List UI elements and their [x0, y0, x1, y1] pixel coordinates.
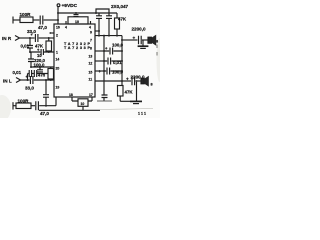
svg-text:8: 8 — [151, 83, 153, 87]
speaker L — [141, 78, 144, 84]
wire coupling row L — [28, 73, 49, 75]
svg-text:TA7233P: TA7233P — [64, 46, 90, 50]
resistor 47K right bottom — [118, 86, 124, 97]
wire mid-left vertical — [30, 52, 32, 67]
node pin9 b — [103, 35, 105, 37]
node pin9 a — [98, 35, 100, 37]
svg-text:7: 7 — [90, 39, 92, 43]
wire cap 100b leads — [104, 70, 122, 72]
resistor 100R — [20, 17, 33, 23]
capacitor 33,0 L — [30, 76, 33, 84]
capacitor 100,0 lower right mid — [107, 68, 110, 75]
speaker R — [148, 37, 151, 43]
wire mid left y67 — [31, 66, 54, 68]
svg-text:1 1 1: 1 1 1 — [138, 112, 146, 116]
node cap 001 — [103, 60, 105, 62]
svg-text:20: 20 — [56, 67, 60, 71]
svg-text:IN R: IN R — [2, 36, 12, 41]
node mid y52 — [29, 51, 31, 53]
svg-text:2200,0: 2200,0 — [132, 27, 146, 32]
wire to IC pin2 — [39, 37, 54, 39]
capacitor 10 series — [41, 49, 43, 55]
node cap 100 — [103, 50, 105, 52]
pin stub top b — [90, 21, 92, 24]
wire cap 001 leads — [104, 60, 122, 62]
wire mid drop bus — [97, 100, 112, 102]
wire resistor to ground — [120, 100, 130, 102]
svg-text:19: 19 — [56, 86, 60, 90]
wire out L to cap — [122, 80, 131, 82]
svg-text:10: 10 — [75, 20, 79, 24]
wire pin9 out — [95, 35, 122, 37]
supply rail — [58, 12, 117, 14]
svg-text:2200,0: 2200,0 — [131, 75, 145, 80]
resistor 47K left — [46, 41, 52, 51]
capacitor 220,0 — [28, 59, 34, 62]
capacitor 0,047 a — [96, 16, 102, 19]
terminal tick left bottom — [12, 102, 14, 109]
wire IN L — [21, 79, 30, 81]
svg-text:100,0: 100,0 — [112, 43, 124, 48]
ground right bottom — [136, 82, 138, 101]
pin stub top a — [65, 21, 67, 24]
node pin stub upper — [98, 30, 100, 32]
wire cap a leg — [98, 13, 100, 36]
node IN R junction — [29, 37, 31, 39]
svg-text:17: 17 — [89, 93, 93, 97]
wire cap b leg — [108, 19, 110, 36]
wire resistor R leads — [48, 38, 50, 52]
wire cap to IC bottom pin — [39, 105, 56, 107]
capacitor 100,0 right mid — [110, 48, 113, 55]
wire out R to cap — [122, 39, 138, 41]
wire pin out L — [95, 80, 122, 82]
resistor bottom center — [78, 99, 88, 107]
svg-text:47K: 47K — [118, 17, 127, 22]
node pin9 c — [116, 35, 118, 37]
wire to R bottom — [13, 105, 16, 107]
node pin9 d — [108, 35, 110, 37]
wire R1 to C1 — [33, 19, 39, 21]
svg-text:16: 16 — [56, 26, 60, 30]
svg-text:47,0: 47,0 — [38, 25, 47, 30]
wire pin stub right row1 — [95, 50, 104, 52]
wire rail jog top right — [96, 9, 109, 16]
svg-text:33,0: 33,0 — [25, 86, 34, 91]
svg-text:47n: 47n — [38, 72, 46, 77]
wire pin stub upper — [95, 30, 99, 32]
svg-text:9: 9 — [90, 31, 92, 35]
node mid y67 — [30, 66, 32, 68]
wire cap to speaker L — [135, 80, 141, 82]
svg-text:0,01: 0,01 — [13, 70, 22, 75]
capacitor 0,01 L — [29, 70, 31, 77]
pin stub left NC — [50, 32, 54, 34]
svg-text:100,0: 100,0 — [34, 62, 46, 67]
capacitor 100,0 hang — [37, 67, 43, 72]
capacitor 0,01 R — [27, 46, 33, 49]
wire R to cap bottom — [31, 105, 35, 107]
wire pin stub right row3 — [95, 70, 104, 72]
svg-text:47,0: 47,0 — [40, 111, 49, 116]
svg-text:18: 18 — [69, 93, 73, 97]
wire bottom pin 17 drop — [91, 97, 93, 101]
svg-text:12: 12 — [89, 62, 93, 66]
wire resistor lower leads — [50, 67, 52, 80]
svg-text:4: 4 — [89, 26, 91, 30]
input terminal IN L — [16, 78, 21, 83]
wire cap to speaker R — [142, 39, 148, 41]
node speaker L ground tap — [136, 80, 138, 82]
capacitor 2200,0 R — [139, 36, 142, 44]
wire box drop — [82, 106, 84, 110]
svg-text:10: 10 — [81, 102, 85, 106]
wire IC bottom pin drop — [55, 97, 57, 106]
node out R — [121, 39, 123, 41]
wire resistor bottom lead — [116, 29, 118, 36]
svg-text:0,01: 0,01 — [21, 44, 30, 49]
wire to R1 — [13, 19, 20, 21]
wire C1 to rail drop — [44, 19, 58, 21]
svg-text:+: + — [133, 36, 136, 41]
capacitor 33,0 R — [35, 34, 38, 42]
resistor 100R bottom — [16, 103, 31, 109]
svg-text:100R: 100R — [18, 98, 30, 103]
wire 0,01 L rise — [27, 74, 29, 81]
svg-text:11: 11 — [89, 78, 93, 82]
svg-text:100R: 100R — [20, 12, 32, 17]
capacitor 2200,0 L — [132, 77, 135, 85]
svg-text:15: 15 — [89, 71, 93, 75]
capacitor mid drop — [102, 36, 108, 101]
svg-text:+: + — [126, 77, 129, 82]
svg-text:0,01: 0,01 — [113, 60, 122, 65]
wire bottom pin 18 drop — [71, 97, 73, 101]
svg-text:8: 8 — [90, 47, 92, 51]
node resistor R top — [48, 37, 50, 39]
svg-text:2X0,047: 2X0,047 — [111, 4, 129, 9]
capacitor lower small — [43, 95, 49, 98]
wire supply drop — [57, 7, 59, 24]
ground R — [142, 40, 144, 46]
node out L — [121, 80, 123, 82]
wire bottom connect — [72, 100, 92, 102]
resistor 4,7K right top — [115, 18, 120, 29]
rail cap tick at pin10 box — [74, 15, 79, 17]
wire resistor L leads — [120, 81, 122, 101]
power terminal +9VDC — [57, 4, 60, 7]
IC U1 body — [54, 24, 95, 97]
svg-text:47K: 47K — [125, 90, 134, 95]
svg-text:100,0: 100,0 — [112, 70, 124, 75]
svg-text:13: 13 — [89, 55, 93, 59]
node filter junction — [57, 19, 59, 21]
wire 0,01 R drop — [29, 38, 31, 52]
capacitor 47,0 bottom — [36, 101, 39, 110]
capacitor 0,01 right mid — [108, 58, 111, 65]
node IN L resistor junction — [45, 79, 47, 81]
node cap 100b — [103, 70, 105, 72]
svg-text:+9VDC: +9VDC — [62, 3, 78, 9]
capacitor 47,0 top — [40, 16, 43, 25]
svg-text:14: 14 — [56, 58, 60, 62]
capacitor 0,047 b — [106, 16, 112, 19]
ground bus bottom — [39, 109, 100, 111]
node supply junction — [57, 12, 59, 14]
wire mid left y52 — [30, 51, 54, 53]
node rail pin10 — [75, 12, 77, 14]
terminal tick left top — [12, 17, 14, 24]
resistor left lower — [48, 69, 54, 80]
wire pin stub right row2 — [95, 60, 104, 62]
input terminal IN R — [15, 36, 20, 41]
wire right bus vertical — [121, 36, 123, 81]
node bottom — [45, 105, 47, 107]
svg-text:1: 1 — [56, 51, 58, 55]
svg-text:+: + — [31, 33, 33, 37]
wire resistor top lead — [116, 13, 118, 18]
wire 47,0 drop — [45, 80, 47, 106]
node IN L junction — [27, 79, 29, 81]
capacitor 47n L — [34, 70, 36, 77]
svg-text:+: + — [26, 75, 28, 79]
wire cap 100 leads — [104, 50, 122, 52]
svg-text:8: 8 — [156, 40, 158, 44]
wire to IC pin L — [34, 79, 54, 81]
svg-text:2: 2 — [56, 34, 58, 38]
paper background — [0, 0, 160, 118]
node rail right — [95, 12, 97, 14]
svg-text:4: 4 — [65, 26, 67, 30]
pin 10 box — [68, 17, 88, 24]
wire IN R — [20, 37, 35, 39]
svg-text:IN L: IN L — [3, 79, 12, 84]
